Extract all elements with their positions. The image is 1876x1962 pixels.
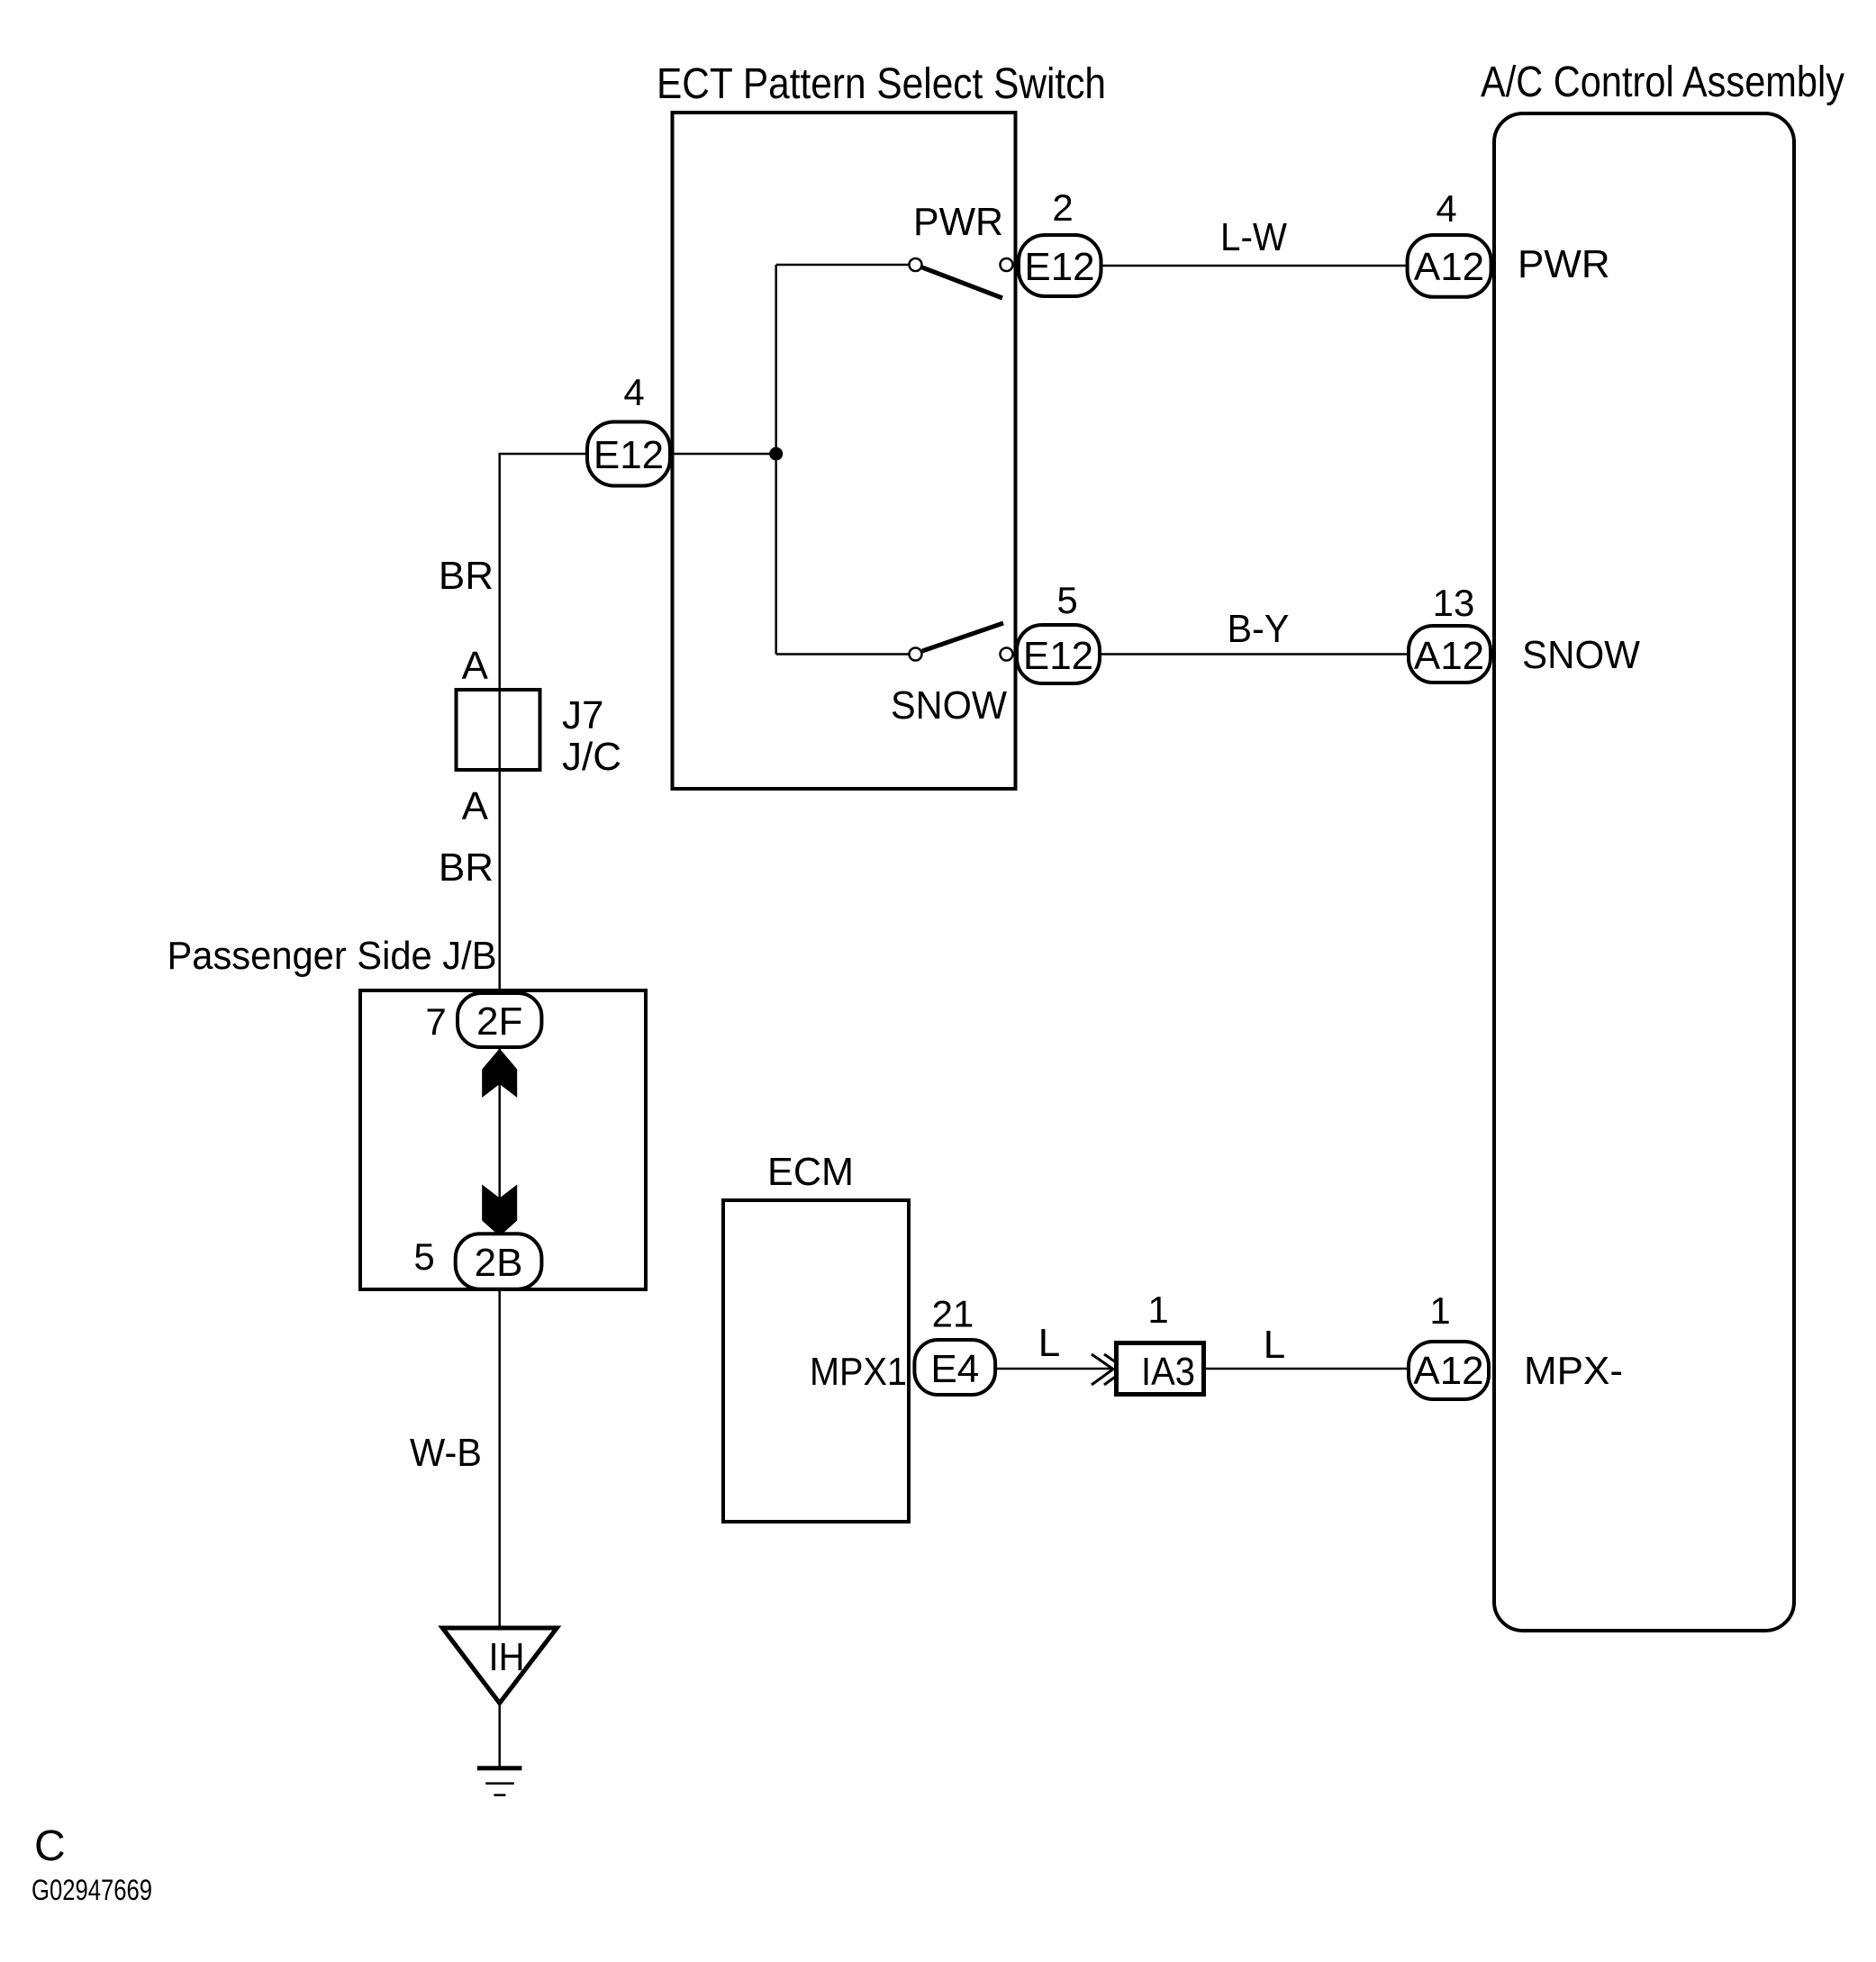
junction connector J7 J/C box [457, 690, 540, 770]
svg-text:E12: E12 [1024, 245, 1094, 289]
wire L-W [1103, 265, 1406, 267]
svg-text:ECT Pattern Select Switch: ECT Pattern Select Switch [657, 60, 1106, 108]
splice chevron arrows [1092, 1354, 1113, 1385]
connector A12 pin 13 [1409, 626, 1491, 683]
switch PWR: pivot contact [910, 258, 922, 271]
svg-text:A12: A12 [1413, 1349, 1483, 1393]
wire E4 to splice [997, 1368, 1111, 1370]
switch PWR: blade [922, 267, 1002, 298]
svg-text:A: A [462, 784, 489, 828]
svg-text:E12: E12 [1023, 634, 1093, 678]
wire between 2F and 2B [498, 1049, 501, 1234]
svg-text:L: L [1038, 1321, 1060, 1365]
svg-text:PWR: PWR [1518, 242, 1610, 286]
wire: SNOW switch feed [776, 653, 910, 656]
wire: internal vertical branch [775, 265, 777, 655]
svg-text:IH: IH [489, 1635, 525, 1679]
svg-text:2B: 2B [475, 1241, 523, 1285]
connector A12 pin 4 [1408, 235, 1491, 297]
connector 2B [456, 1234, 542, 1288]
svg-text:A12: A12 [1414, 245, 1484, 289]
svg-text:A/C Control Assembly: A/C Control Assembly [1481, 59, 1844, 106]
svg-text:J7: J7 [562, 693, 603, 737]
connector E4 pin 21 [914, 1340, 995, 1395]
svg-text:L-W: L-W [1220, 215, 1287, 259]
svg-text:2F: 2F [476, 999, 522, 1044]
wire: E12 pin4 to junction [672, 453, 776, 456]
svg-text:IA3: IA3 [1141, 1350, 1195, 1394]
svg-text:4: 4 [623, 371, 644, 413]
svg-text:G02947669: G02947669 [32, 1874, 152, 1906]
svg-text:B-Y: B-Y [1228, 607, 1290, 651]
svg-text:SNOW: SNOW [891, 683, 1007, 728]
svg-text:W-B: W-B [410, 1431, 482, 1475]
svg-text:L: L [1264, 1323, 1285, 1367]
wire: PWR switch feed [776, 264, 910, 267]
connector 2F [458, 993, 541, 1047]
svg-text:BR: BR [439, 554, 494, 598]
switch SNOW: pivot contact [910, 648, 922, 661]
ground triangle IH [442, 1628, 557, 1704]
svg-text:5: 5 [1056, 579, 1077, 621]
svg-text:1: 1 [1429, 1289, 1450, 1332]
svg-text:21: 21 [932, 1293, 974, 1335]
A/C Control Assembly box [1494, 113, 1794, 1631]
svg-text:ECM: ECM [767, 1150, 854, 1194]
svg-text:5: 5 [413, 1235, 434, 1278]
wire IA3 to A12 [1206, 1368, 1407, 1370]
svg-text:7: 7 [425, 1000, 446, 1043]
wire: E12 pin4 lead-in horizontal + vertical drop [500, 454, 585, 991]
svg-text:A12: A12 [1414, 634, 1484, 678]
svg-text:MPX-: MPX- [1524, 1349, 1623, 1393]
wire W-B vertical [498, 1291, 501, 1628]
switch SNOW: blade [922, 623, 1003, 651]
svg-text:C: C [34, 1822, 66, 1870]
ECM box [723, 1200, 909, 1522]
svg-text:E12: E12 [594, 433, 664, 477]
connector IA3 pin 1 [1117, 1343, 1204, 1395]
arrow down (J/B internal) [482, 1185, 517, 1237]
ground symbol [477, 1766, 522, 1770]
svg-text:E4: E4 [930, 1347, 979, 1391]
svg-text:2: 2 [1052, 186, 1073, 229]
svg-text:PWR: PWR [913, 200, 1003, 244]
wire B-Y [1101, 653, 1407, 656]
connector A12 pin 1 [1409, 1342, 1489, 1399]
switch PWR: fixed contact [1001, 258, 1013, 271]
svg-text:13: 13 [1433, 582, 1475, 624]
Passenger Side J/B box [360, 990, 646, 1289]
svg-text:4: 4 [1436, 187, 1456, 230]
node: junction dot [769, 448, 783, 461]
svg-text:A: A [462, 644, 489, 688]
svg-text:BR: BR [439, 845, 494, 890]
svg-text:J/C: J/C [562, 735, 621, 779]
connector E12 pin 5 [1017, 625, 1100, 683]
svg-text:1: 1 [1147, 1288, 1168, 1331]
svg-text:MPX1: MPX1 [810, 1350, 907, 1394]
switch SNOW: fixed contact [1001, 648, 1013, 661]
wire below triangle [498, 1703, 501, 1768]
arrow up (J/B internal) [482, 1049, 517, 1099]
svg-text:SNOW: SNOW [1522, 633, 1640, 677]
svg-text:Passenger Side J/B: Passenger Side J/B [168, 934, 497, 978]
ECT Pattern Select Switch box [673, 113, 1016, 789]
connector E12 pin 4 [587, 422, 670, 486]
connector E12 pin 2 [1019, 235, 1101, 296]
